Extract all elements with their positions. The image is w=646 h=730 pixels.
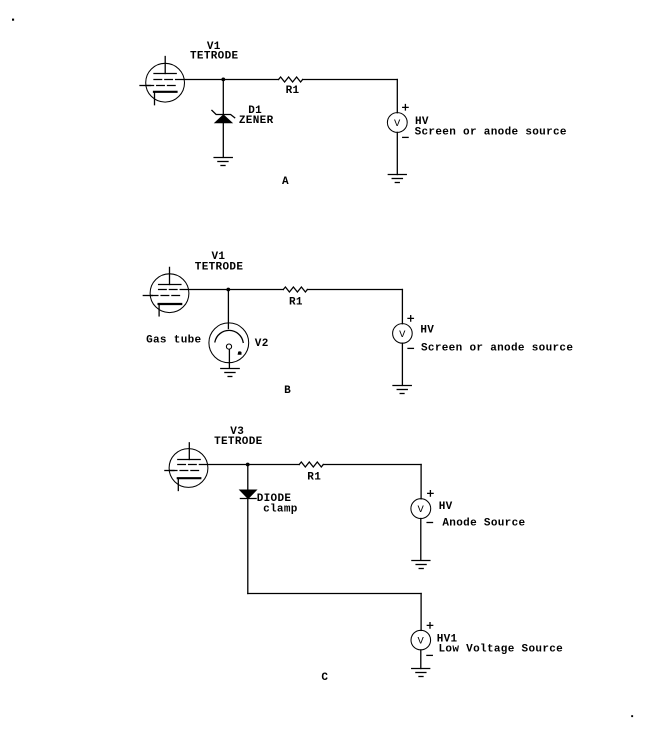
plus sign (A)	[403, 105, 408, 111]
tube V3 control grid (dashed)	[169, 470, 200, 472]
svg-text:B: B	[284, 385, 291, 397]
source HV (A) circle	[387, 113, 407, 133]
wire tube A to resistor R1a	[184, 79, 278, 81]
tube V1 cathode lead	[154, 92, 156, 105]
zener D1 cathode bar with wings	[212, 110, 235, 117]
wire zener D1 to ground	[222, 123, 224, 158]
svg-text:R1: R1	[286, 85, 300, 97]
svg-text:TETRODE: TETRODE	[190, 51, 239, 63]
tube V1b control grid (dashed)	[150, 295, 180, 297]
svg-text:V: V	[417, 636, 424, 648]
tube V3 cathode	[178, 477, 201, 479]
gas tube V2 gas dot	[238, 351, 242, 355]
source HV (C) circle	[411, 499, 431, 519]
wire bottom rail up-down to source HV1	[420, 594, 422, 631]
wire source HV (C) to ground	[420, 519, 422, 561]
ground (below D1)	[214, 158, 232, 166]
svg-text:V: V	[417, 504, 424, 516]
diode clamp cathode bar	[240, 498, 256, 500]
tube V1b cathode	[159, 303, 182, 305]
tube V1 (circuit B) envelope	[150, 274, 189, 313]
gas tube V2 cathode lead	[228, 349, 230, 368]
svg-text:ZENER: ZENER	[239, 115, 274, 127]
wire R1a to corner	[303, 79, 398, 81]
node junction dot A	[221, 78, 225, 82]
wire R1b to corner	[307, 289, 402, 291]
tube V1b plate	[159, 284, 181, 286]
tube V1b grid lead	[143, 295, 152, 297]
wire R1c to corner	[323, 464, 421, 466]
svg-text:HV: HV	[420, 325, 434, 337]
tube V3 screen grid (dashed)	[178, 464, 208, 466]
plus sign (B)	[408, 316, 413, 321]
wire corner down to source HV (B)	[401, 290, 403, 324]
resistor R1 (circuit C)	[299, 462, 323, 467]
zener D1 anode triangle	[215, 115, 231, 123]
stray dot bottom-right	[631, 715, 633, 717]
source HV (B) circle	[393, 324, 413, 344]
svg-text:Gas tube: Gas tube	[146, 335, 201, 347]
wire corner down to source HV (C)	[420, 465, 422, 499]
wire bottom rail to right	[248, 593, 421, 595]
svg-text:V: V	[399, 329, 406, 341]
source HV1 circle	[411, 630, 431, 650]
tube V1 control grid (dashed)	[146, 85, 176, 87]
minus sign (HV1)	[427, 654, 432, 656]
ground (below gas tube)	[221, 369, 239, 377]
tube V3 plate	[178, 459, 200, 461]
minus sign (C)	[427, 522, 432, 524]
svg-text:Screen or anode source: Screen or anode source	[421, 342, 573, 354]
tube V3 (circuit C) envelope	[169, 449, 208, 488]
tube V1 screen grid (dashed)	[154, 79, 184, 81]
gas tube V2 anode arc	[215, 330, 243, 342]
ground (below source B)	[393, 386, 411, 394]
wire source HV1 to ground	[420, 650, 422, 669]
resistor R1 (circuit A)	[279, 77, 303, 82]
diode clamp triangle	[240, 490, 256, 498]
minus sign (A)	[403, 136, 408, 138]
tube V3 plate lead	[188, 443, 190, 460]
tube V1 cathode	[154, 91, 177, 93]
tube V1 (circuit A) envelope	[146, 63, 185, 102]
svg-text:Anode Source: Anode Source	[442, 518, 525, 530]
tube V1b screen grid (dashed)	[159, 289, 189, 291]
node junction dot B	[226, 288, 230, 292]
wire diode down to bottom rail	[247, 499, 249, 594]
svg-text:V: V	[394, 118, 401, 130]
wire source HV (B) to ground	[401, 343, 403, 385]
wire source HV (A) to ground	[396, 132, 398, 174]
stray dot top-left	[12, 19, 14, 21]
svg-text:A: A	[282, 176, 289, 188]
svg-text:R1: R1	[289, 297, 303, 309]
ground (below source HV1)	[412, 669, 430, 677]
svg-text:C: C	[321, 672, 328, 684]
svg-text:TETRODE: TETRODE	[214, 436, 263, 448]
svg-text:clamp: clamp	[263, 503, 298, 515]
svg-text:Screen or anode source: Screen or anode source	[415, 126, 567, 138]
ground (below source A)	[388, 175, 406, 183]
resistor R1 (circuit B)	[283, 287, 307, 292]
svg-text:R1: R1	[307, 471, 321, 483]
plus sign (HV1)	[427, 623, 432, 628]
svg-text:TETRODE: TETRODE	[195, 262, 244, 274]
wire corner down to source HV (A)	[396, 80, 398, 113]
wire tube B to resistor R1b	[189, 289, 283, 291]
wire junction A down to zener D1	[222, 80, 224, 115]
tube V1b cathode lead	[158, 304, 160, 316]
node junction dot C	[246, 463, 250, 467]
tube V1 plate	[154, 73, 176, 75]
tube V1b plate lead	[169, 267, 171, 284]
tube V3 cathode lead	[177, 479, 179, 491]
svg-text:Low Voltage Source: Low Voltage Source	[439, 644, 564, 656]
tube V1 plate lead	[164, 57, 166, 74]
tube V1 grid lead	[140, 85, 151, 87]
gas tube V2 cathode ring	[226, 344, 231, 349]
plus sign (C)	[428, 491, 433, 496]
wire junction B down to gas tube V2	[227, 290, 229, 329]
tube V3 grid lead	[165, 470, 174, 472]
gas tube V2 envelope	[209, 323, 249, 363]
wire tube C to resistor R1c	[208, 464, 299, 466]
svg-text:HV: HV	[439, 501, 453, 513]
minus sign (B)	[408, 347, 413, 349]
svg-text:V2: V2	[255, 338, 269, 350]
ground (below source C)	[412, 561, 430, 569]
wire junction C down to diode	[247, 465, 249, 491]
